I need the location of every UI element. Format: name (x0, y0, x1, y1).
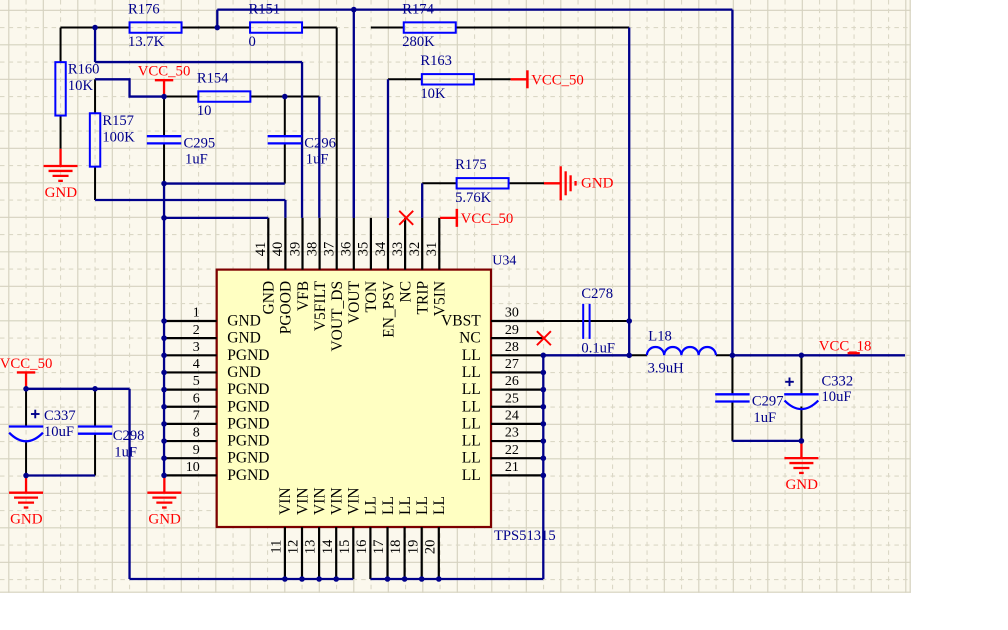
svg-text:GND: GND (785, 477, 818, 493)
svg-text:R174: R174 (402, 1, 434, 17)
svg-text:GND: GND (10, 512, 43, 528)
svg-text:31: 31 (424, 242, 440, 257)
svg-text:LL: LL (462, 467, 481, 484)
svg-text:14: 14 (320, 539, 336, 554)
svg-text:PGND: PGND (227, 381, 269, 398)
svg-text:GND: GND (227, 313, 261, 330)
svg-text:R151: R151 (249, 1, 281, 17)
svg-text:VFB: VFB (295, 281, 312, 311)
svg-text:10K: 10K (420, 86, 446, 102)
svg-text:GND: GND (261, 281, 278, 315)
svg-text:TRIP: TRIP (415, 281, 432, 315)
svg-text:1uF: 1uF (185, 152, 208, 168)
svg-text:PGND: PGND (227, 467, 269, 484)
svg-text:LL: LL (414, 496, 431, 515)
svg-text:GND: GND (45, 185, 78, 201)
svg-text:PGOOD: PGOOD (278, 281, 295, 334)
svg-text:VIN: VIN (329, 487, 346, 515)
svg-text:1uF: 1uF (753, 410, 776, 426)
svg-text:LL: LL (462, 433, 481, 450)
svg-text:PGND: PGND (227, 433, 269, 450)
svg-text:LL: LL (462, 381, 481, 398)
svg-text:35: 35 (356, 242, 372, 257)
svg-text:29: 29 (505, 323, 519, 338)
svg-text:R176: R176 (128, 1, 160, 17)
svg-text:PGND: PGND (227, 415, 269, 432)
svg-text:1uF: 1uF (114, 444, 137, 460)
svg-text:0: 0 (249, 34, 256, 50)
svg-text:R175: R175 (455, 157, 487, 173)
svg-text:GND: GND (227, 330, 261, 347)
svg-text:2: 2 (193, 323, 200, 338)
svg-text:15: 15 (337, 540, 353, 555)
svg-text:13: 13 (303, 540, 319, 555)
svg-text:4: 4 (193, 357, 200, 372)
svg-text:C337: C337 (44, 408, 76, 424)
svg-text:VCC_18: VCC_18 (819, 338, 872, 354)
svg-text:U34: U34 (492, 253, 516, 268)
svg-text:23: 23 (505, 426, 519, 441)
svg-text:LL: LL (431, 496, 448, 515)
svg-text:41: 41 (253, 242, 269, 257)
svg-text:18: 18 (388, 540, 404, 555)
svg-text:22: 22 (505, 443, 519, 458)
svg-text:27: 27 (505, 357, 519, 372)
svg-text:40: 40 (270, 242, 286, 257)
svg-text:V5FILT: V5FILT (312, 280, 329, 331)
svg-text:C295: C295 (184, 136, 216, 152)
svg-text:VOUT: VOUT (346, 280, 363, 324)
svg-text:32: 32 (407, 242, 423, 257)
svg-text:3: 3 (193, 340, 200, 355)
svg-text:R154: R154 (197, 70, 229, 86)
svg-text:28: 28 (505, 340, 519, 355)
svg-text:GND: GND (581, 176, 614, 192)
svg-text:26: 26 (505, 374, 519, 389)
svg-text:TON: TON (363, 281, 380, 313)
svg-text:LL: LL (462, 450, 481, 467)
svg-text:36: 36 (339, 242, 355, 257)
svg-text:VCC_50: VCC_50 (461, 211, 514, 227)
svg-text:280K: 280K (402, 34, 435, 50)
svg-text:VCC_50: VCC_50 (531, 72, 584, 88)
svg-text:6: 6 (193, 391, 200, 406)
svg-text:34: 34 (373, 241, 389, 256)
svg-text:PGND: PGND (227, 398, 269, 415)
svg-text:100K: 100K (102, 129, 135, 145)
svg-text:GND: GND (148, 512, 181, 528)
svg-text:1uF: 1uF (306, 152, 329, 168)
svg-text:NC: NC (397, 281, 414, 303)
svg-text:24: 24 (505, 409, 519, 424)
svg-text:C332: C332 (822, 373, 854, 389)
svg-text:17: 17 (371, 540, 387, 555)
svg-text:VCC_50: VCC_50 (0, 356, 52, 372)
svg-text:VCC_50: VCC_50 (138, 64, 191, 80)
svg-text:21: 21 (505, 460, 519, 475)
svg-text:LL: LL (462, 398, 481, 415)
svg-text:R160: R160 (68, 62, 100, 78)
svg-text:10uF: 10uF (44, 424, 74, 440)
svg-text:10: 10 (186, 460, 200, 475)
svg-text:30: 30 (505, 306, 519, 321)
svg-text:33: 33 (390, 242, 406, 257)
svg-text:PGND: PGND (227, 450, 269, 467)
svg-text:R157: R157 (102, 113, 134, 129)
svg-text:TPS51315: TPS51315 (494, 528, 556, 544)
svg-text:5.76K: 5.76K (455, 190, 492, 206)
svg-text:8: 8 (193, 426, 200, 441)
svg-text:20: 20 (422, 540, 438, 555)
svg-text:11: 11 (269, 540, 285, 554)
svg-text:NC: NC (459, 330, 481, 347)
svg-text:GND: GND (227, 364, 261, 381)
svg-text:7: 7 (193, 409, 200, 424)
svg-text:C298: C298 (113, 428, 145, 444)
svg-text:VIN: VIN (294, 487, 311, 515)
svg-text:25: 25 (505, 391, 519, 406)
svg-text:PGND: PGND (227, 347, 269, 364)
svg-text:VIN: VIN (346, 487, 363, 515)
svg-text:16: 16 (354, 540, 370, 555)
svg-text:VIN: VIN (277, 487, 294, 515)
svg-text:19: 19 (405, 540, 421, 555)
svg-text:13.7K: 13.7K (128, 34, 165, 50)
svg-text:37: 37 (322, 242, 338, 257)
svg-text:39: 39 (287, 242, 303, 257)
svg-text:LL: LL (380, 496, 397, 515)
svg-text:9: 9 (193, 443, 200, 458)
svg-text:R163: R163 (420, 53, 452, 69)
svg-text:5: 5 (193, 374, 200, 389)
svg-text:LL: LL (462, 415, 481, 432)
svg-text:L18: L18 (648, 329, 672, 345)
svg-text:38: 38 (304, 242, 320, 257)
svg-text:1: 1 (193, 306, 200, 321)
svg-text:LL: LL (462, 364, 481, 381)
svg-text:EN_PSV: EN_PSV (380, 280, 397, 338)
svg-text:LL: LL (462, 347, 481, 364)
svg-text:10uF: 10uF (822, 389, 852, 405)
svg-text:LL: LL (397, 496, 414, 515)
svg-text:C297: C297 (752, 394, 784, 410)
svg-text:10K: 10K (68, 78, 94, 94)
svg-text:C296: C296 (304, 136, 336, 152)
svg-text:0.1uF: 0.1uF (581, 341, 615, 357)
svg-text:C278: C278 (581, 286, 613, 302)
svg-text:VOUT_DS: VOUT_DS (329, 281, 346, 352)
svg-text:V5IN: V5IN (432, 281, 449, 316)
svg-text:12: 12 (286, 540, 302, 555)
svg-text:10: 10 (197, 103, 212, 119)
svg-text:VIN: VIN (311, 487, 328, 515)
svg-text:LL: LL (363, 496, 380, 515)
svg-text:3.9uH: 3.9uH (648, 361, 685, 377)
